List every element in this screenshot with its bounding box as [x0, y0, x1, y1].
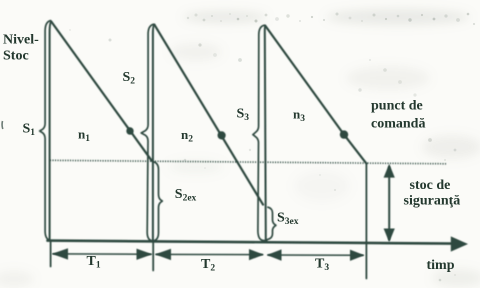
T1 interval arrow [53, 253, 151, 255]
svg-text:stoc de: stoc de [410, 178, 451, 193]
consumption slope n2 [154, 25, 263, 205]
T3 interval arrow [268, 254, 363, 256]
stock spike 2 vertical rise [153, 25, 155, 241]
safety arrow up head [384, 164, 395, 178]
tick T1 start [50, 242, 52, 267]
stock spike 3 vertical rise [265, 26, 266, 241]
T2 left arrowhead [155, 249, 171, 260]
consumption slope n1 [51, 22, 151, 161]
svg-text:Stoc: Stoc [3, 48, 29, 63]
T3 right arrowhead [350, 250, 365, 261]
T2 interval arrow [156, 253, 263, 255]
order point dot 1 [126, 127, 133, 134]
vertical line end of T3 [365, 164, 367, 279]
svg-text:comandă: comandă [371, 116, 425, 131]
brace S1 [40, 21, 51, 241]
consumption slope n3 [265, 26, 366, 164]
time axis [48, 241, 453, 244]
safety stock arrow line [388, 167, 390, 240]
brace S2ex [154, 162, 163, 241]
dotted order-point line [50, 160, 446, 164]
T2 right arrowhead [249, 249, 264, 260]
T3 left arrowhead [267, 249, 282, 260]
T1 right arrowhead [137, 249, 153, 260]
brace S2 [141, 24, 154, 241]
scan fleck left edge [1, 121, 4, 129]
order point dot 3 [340, 130, 348, 138]
T1 left arrowhead [52, 248, 68, 259]
brace S3 [253, 25, 267, 241]
order point dot 2 [218, 131, 226, 139]
brace S3ex [267, 207, 276, 239]
svg-text:siguranţă: siguranţă [404, 193, 461, 208]
axis arrowhead [451, 236, 468, 251]
svg-text:punct de: punct de [371, 99, 423, 114]
svg-text:timp: timp [427, 258, 455, 273]
safety arrow down head [384, 229, 395, 243]
svg-text:Nivel-: Nivel- [3, 33, 39, 48]
stock spike 1 vertical rise [50, 22, 52, 241]
tick T1/T2 [152, 242, 154, 271]
